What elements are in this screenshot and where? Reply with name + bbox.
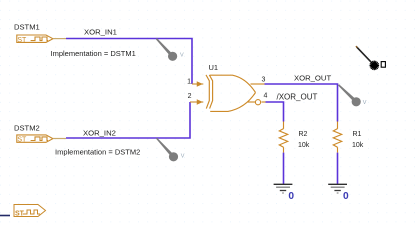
wire R2 to ground bbox=[283, 153, 285, 184]
wire /XOR_OUT bbox=[266, 102, 284, 122]
xor gate U1 body bbox=[206, 75, 256, 112]
pin 3 stub bbox=[251, 83, 265, 85]
stimulus symbol DSTM1 bbox=[17, 35, 53, 42]
svg-text:0: 0 bbox=[343, 191, 349, 202]
pin 4 stub bbox=[248, 101, 257, 103]
svg-text:U1: U1 bbox=[209, 63, 219, 72]
voltage probe on XOR_OUT bbox=[338, 84, 367, 106]
svg-text:V: V bbox=[180, 53, 184, 59]
pin 2 stub with arrow bbox=[190, 100, 203, 104]
dark dash bottom-left bbox=[0, 215, 10, 217]
svg-text:R2: R2 bbox=[299, 131, 308, 138]
ground 0 under R2 bbox=[274, 184, 293, 193]
svg-text:XOR_IN1: XOR_IN1 bbox=[84, 27, 117, 36]
svg-text:4: 4 bbox=[264, 93, 268, 100]
svg-text:V: V bbox=[181, 153, 185, 159]
wire XOR_IN2 bbox=[66, 102, 190, 138]
wire XOR_IN1 bbox=[66, 39, 192, 85]
resistor R1 bbox=[333, 122, 341, 153]
svg-text:/XOR_OUT: /XOR_OUT bbox=[277, 92, 318, 101]
svg-text:2: 2 bbox=[188, 93, 192, 100]
svg-text:ST: ST bbox=[17, 37, 27, 44]
svg-text:XOR_OUT: XOR_OUT bbox=[294, 74, 331, 83]
wire XOR_OUT bbox=[265, 84, 338, 122]
svg-text:Implementation = DSTM1: Implementation = DSTM1 bbox=[51, 49, 136, 58]
ground 0 under R1 bbox=[328, 184, 347, 193]
voltage probe on XOR_IN2 bbox=[156, 138, 185, 162]
svg-text:XOR_IN2: XOR_IN2 bbox=[83, 129, 116, 138]
xor gate output bubble bbox=[255, 100, 260, 105]
svg-text:V: V bbox=[363, 100, 367, 106]
svg-text:3: 3 bbox=[262, 77, 266, 84]
svg-text:0: 0 bbox=[288, 191, 294, 202]
svg-text:R1: R1 bbox=[353, 131, 362, 138]
svg-text:DSTM2: DSTM2 bbox=[14, 123, 40, 132]
pin stub DSTM1 bbox=[53, 38, 66, 40]
svg-text:DSTM1: DSTM1 bbox=[14, 22, 40, 31]
wire R1 to ground bbox=[337, 153, 339, 184]
svg-text:10k: 10k bbox=[298, 142, 310, 149]
svg-text:Implementation = DSTM2: Implementation = DSTM2 bbox=[55, 148, 140, 157]
svg-text:ST: ST bbox=[17, 137, 27, 144]
voltage probe on XOR_IN1 bbox=[156, 38, 184, 61]
svg-text:1: 1 bbox=[187, 78, 191, 85]
resistor R2 bbox=[279, 122, 287, 153]
pin 1 stub with arrow bbox=[192, 82, 203, 86]
hidden stimulus icon bottom-left bbox=[14, 205, 46, 217]
pin stub DSTM2 bbox=[53, 138, 66, 140]
svg-text:10k: 10k bbox=[352, 142, 364, 149]
stimulus symbol DSTM2 bbox=[17, 135, 53, 142]
svg-text:ST: ST bbox=[15, 211, 25, 218]
probe cursor icon bbox=[356, 46, 386, 70]
